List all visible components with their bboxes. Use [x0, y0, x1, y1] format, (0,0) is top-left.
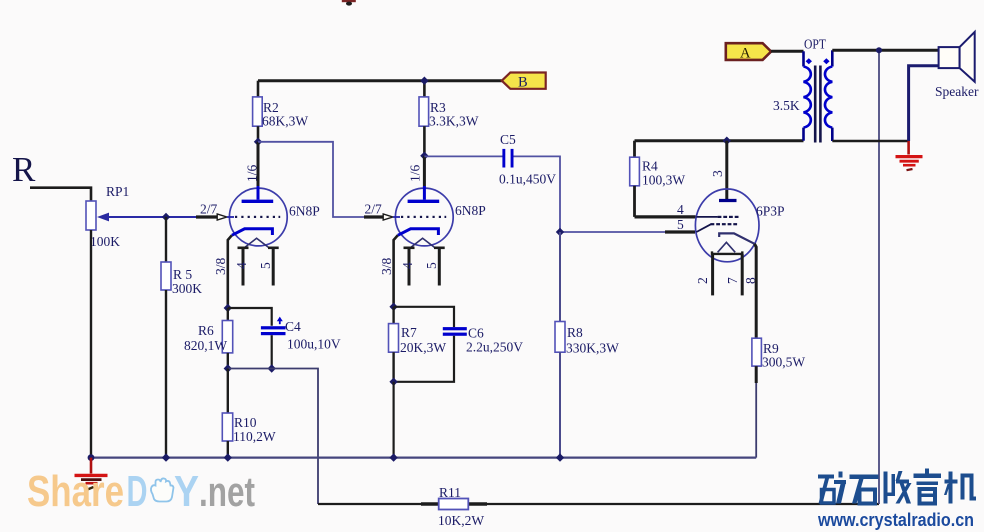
svg-text:5: 5 — [677, 217, 684, 232]
label R6 — [198, 323, 214, 338]
svg-text:300,5W: 300,5W — [762, 355, 805, 370]
label 8 V3 — [743, 277, 758, 284]
label R3 — [430, 100, 446, 115]
svg-text:OPT: OPT — [804, 37, 827, 52]
wire feedback R11 line — [318, 503, 879, 505]
label 820,1W — [184, 338, 227, 353]
svg-text:100u,10V: 100u,10V — [287, 337, 341, 352]
label 100K — [90, 234, 120, 249]
tube V3 heater — [712, 242, 742, 254]
svg-text:100K: 100K — [90, 234, 120, 249]
label R7 — [401, 325, 417, 340]
node junction R3 plate V2 — [420, 152, 428, 160]
wire screen grid pin 4 V3 — [635, 215, 696, 218]
label 330K,3W — [566, 341, 619, 356]
tube V2 plate — [408, 186, 440, 201]
label C6 — [468, 326, 484, 341]
svg-text:C4: C4 — [285, 319, 301, 334]
svg-text:10K,2W: 10K,2W — [438, 513, 484, 528]
svg-text:2.2u,250V: 2.2u,250V — [466, 340, 523, 355]
tube V1 pin 4 — [242, 248, 245, 286]
label 3/8 V1 — [213, 257, 228, 275]
wire C5 rail — [424, 156, 695, 232]
svg-text:Speaker: Speaker — [935, 84, 979, 99]
label 1/6 V1 — [245, 164, 260, 182]
label 4 V1 — [234, 262, 249, 269]
resistor R4 — [630, 141, 640, 217]
svg-text:4: 4 — [234, 262, 249, 269]
label 10K,2W — [438, 513, 484, 528]
label RP1 — [106, 184, 129, 199]
ground symbol left — [75, 458, 108, 490]
wire RP1 wiper to grid V1 — [107, 216, 218, 218]
tube V3 pin 2 — [711, 254, 714, 296]
top edge cropped marker — [342, 0, 356, 6]
wire feedback vertical to speaker — [878, 50, 880, 504]
label 7 V3 — [725, 277, 740, 284]
tube V1 grid entry arrow — [217, 214, 234, 220]
label 300K — [172, 281, 202, 296]
resistor R2 — [253, 81, 263, 142]
node junction R3 top — [420, 77, 428, 85]
watermark www.crystalradio.cn — [817, 510, 974, 530]
wire V2 cathode pin 3/8 down — [394, 235, 398, 306]
flag B — [502, 73, 546, 91]
svg-text:RP1: RP1 — [106, 184, 129, 199]
svg-text:5: 5 — [258, 262, 273, 269]
label R8 — [567, 325, 583, 340]
svg-text:6N8P: 6N8P — [455, 203, 486, 218]
speaker — [939, 32, 975, 82]
wire A to OPT primary — [771, 50, 803, 53]
node R input label — [12, 150, 36, 189]
label R11 — [439, 485, 461, 500]
tube V1 heater — [238, 238, 279, 248]
label Speaker — [935, 84, 979, 99]
node junction V1 cathode R6 C4 — [224, 304, 232, 312]
node junction RP1-R5 — [162, 213, 170, 221]
svg-text:B: B — [518, 75, 528, 91]
wire B+ rail top — [258, 79, 502, 82]
label 3 V3 — [710, 170, 725, 177]
label 20K,3W — [400, 340, 446, 355]
svg-text:6N8P: 6N8P — [289, 204, 320, 219]
watermark ShareDIY.net — [27, 467, 255, 516]
label C4 — [285, 319, 301, 334]
node junction V2 cathode R7 C6 — [389, 303, 397, 311]
label 100u,10V — [287, 337, 341, 352]
wire OPT secondary bottom — [832, 140, 908, 143]
label R5 — [173, 267, 192, 282]
svg-text:20K,3W: 20K,3W — [400, 340, 446, 355]
tube V3 screen grid dashes — [696, 216, 738, 218]
tube V3 6P3P circle — [695, 189, 759, 262]
label 5 V1 — [258, 262, 273, 269]
svg-text:3/8: 3/8 — [379, 257, 394, 275]
label 68K,3W — [262, 114, 308, 129]
label 5 V2 — [424, 262, 439, 269]
wire input R to RP1 — [30, 188, 91, 201]
svg-text:820,1W: 820,1W — [184, 338, 227, 353]
label R4 — [642, 159, 658, 174]
node junction R6 C4 bottom — [224, 364, 276, 372]
svg-text:0.1u,450V: 0.1u,450V — [499, 172, 556, 187]
svg-text:R11: R11 — [439, 485, 461, 500]
svg-text:R7: R7 — [401, 325, 417, 340]
svg-text:3: 3 — [710, 170, 725, 177]
wire coupling R2 to grid V2 — [258, 142, 384, 217]
watermark hand icon — [151, 478, 174, 501]
svg-text:www.crystalradio.cn: www.crystalradio.cn — [817, 510, 974, 530]
label 0.1u,450V — [499, 172, 556, 187]
flag A — [726, 43, 771, 61]
label 6N8P V2 — [455, 203, 486, 218]
label 3/8 V2 — [379, 257, 394, 275]
wire RP1 bottom to ground bus — [90, 230, 92, 458]
svg-text:3/8: 3/8 — [213, 257, 228, 275]
resistor R9 — [752, 338, 762, 383]
label 4 V3 — [677, 202, 684, 217]
svg-text:Share: Share — [27, 467, 124, 516]
svg-text:110,2W: 110,2W — [233, 429, 276, 444]
wire V1 cathode pin 3/8 down — [228, 235, 232, 308]
label R10 — [234, 415, 257, 430]
tube V1 grid dots — [235, 216, 280, 218]
tube V1 plate — [242, 186, 274, 201]
svg-text:300K: 300K — [172, 281, 202, 296]
svg-text:5: 5 — [424, 262, 439, 269]
wire OPT secondary top to speaker — [832, 49, 938, 52]
transformer OPT secondary — [825, 50, 832, 141]
tube V3 pin 7 — [741, 254, 744, 296]
svg-text:2/7: 2/7 — [200, 202, 218, 217]
tube V2 pin 4 — [408, 248, 411, 286]
label C5 — [500, 132, 516, 147]
tube V2 heater — [404, 238, 445, 248]
resistor R11 — [439, 499, 469, 510]
label 300,5W — [762, 355, 805, 370]
capacitor C6 — [394, 307, 467, 382]
resistor R3 — [419, 81, 429, 156]
wire R9 to ground bus corner — [755, 383, 757, 458]
svg-text:A: A — [740, 46, 751, 62]
svg-text:2: 2 — [695, 277, 710, 284]
label 110,2W — [233, 429, 276, 444]
wire B+ plate rail to OPT — [635, 139, 804, 142]
resistor R8 — [555, 232, 565, 458]
svg-text:R10: R10 — [234, 415, 257, 430]
node junction R2 plate V1 — [254, 138, 262, 146]
tube V2 grid entry arrow — [383, 214, 400, 220]
svg-text:7: 7 — [725, 277, 740, 284]
transformer OPT core — [815, 66, 820, 143]
label 2/7 V1 — [200, 202, 218, 217]
svg-text:4: 4 — [677, 202, 684, 217]
wire speaker return — [909, 66, 939, 141]
tube V1 pin 5 — [272, 248, 275, 286]
node junction C5 R8 grid — [556, 228, 564, 236]
tube V3 cathode — [719, 233, 754, 243]
tube V1 6N8P circle — [229, 188, 287, 246]
tube V2 6N8P circle — [395, 188, 453, 246]
label 5 V3 — [677, 217, 684, 232]
resistor R10 — [222, 369, 232, 458]
svg-text:R4: R4 — [642, 159, 658, 174]
svg-text:330K,3W: 330K,3W — [566, 341, 619, 356]
label R2 — [263, 100, 279, 115]
capacitor C4 — [228, 308, 286, 369]
label 6P3P — [756, 204, 785, 219]
tube V2 grid dots — [401, 216, 446, 218]
svg-text:4: 4 — [400, 262, 415, 269]
svg-text:3.5K: 3.5K — [773, 98, 800, 113]
tube V2 pin 5 — [438, 248, 441, 286]
transformer OPT primary — [804, 51, 811, 140]
resistor R6 — [222, 308, 232, 369]
wire feedback node to R11 — [228, 369, 318, 505]
wire ground bus — [91, 457, 757, 459]
capacitor C5 — [502, 149, 513, 168]
label R9 — [763, 341, 779, 356]
ground symbol right — [896, 141, 923, 170]
watermark crystalradio logo — [818, 469, 976, 504]
node ground bus junctions — [88, 453, 565, 461]
svg-text:.net: .net — [199, 468, 255, 515]
node junction feedback tap — [876, 47, 882, 53]
wire plate V2 — [423, 156, 426, 187]
svg-text:100,3W: 100,3W — [642, 173, 685, 188]
label 6N8P V1 — [289, 204, 320, 219]
svg-text:3.3K,3W: 3.3K,3W — [429, 114, 479, 129]
svg-text:1/6: 1/6 — [408, 164, 423, 182]
resistor R7 — [389, 307, 399, 382]
tube V3 control grid dashes — [696, 224, 737, 232]
label 2/7 V2 — [365, 202, 383, 217]
label 3.5K — [773, 98, 800, 113]
svg-text:R 5: R 5 — [173, 267, 192, 282]
svg-text:R8: R8 — [567, 325, 583, 340]
node junction R7 C6 bottom — [389, 378, 397, 386]
svg-text:1/6: 1/6 — [245, 164, 260, 182]
wire plate V1 — [257, 142, 260, 187]
label 100,3W — [642, 173, 685, 188]
svg-text:68K,3W: 68K,3W — [262, 114, 308, 129]
svg-text:C5: C5 — [500, 132, 516, 147]
transformer phase dots — [806, 58, 830, 64]
label 2 V3 — [695, 277, 710, 284]
svg-text:Y: Y — [174, 467, 199, 516]
svg-text:2/7: 2/7 — [365, 202, 383, 217]
tube V1 cathode — [232, 229, 273, 236]
svg-text:C6: C6 — [468, 326, 484, 341]
tube V3 plate — [719, 199, 737, 202]
wire R7 to ground bus — [393, 382, 395, 458]
label 1/6 V2 — [408, 164, 423, 182]
potentiometer RP1 — [86, 201, 109, 230]
resistor R5 — [161, 217, 171, 458]
tube V2 cathode — [398, 229, 439, 236]
node junction plate V3 — [723, 137, 731, 145]
svg-text:R6: R6 — [198, 323, 214, 338]
label OPT — [804, 37, 827, 52]
wire plate V3 — [725, 141, 728, 200]
svg-text:D: D — [127, 467, 148, 516]
svg-text:R: R — [12, 150, 36, 189]
svg-text:6P3P: 6P3P — [756, 204, 785, 219]
label 4 V2 — [400, 262, 415, 269]
label 2.2u,250V — [466, 340, 523, 355]
label 3.3K,3W — [429, 114, 479, 129]
wire V3 cathode pin 8 to R9 — [755, 244, 757, 338]
